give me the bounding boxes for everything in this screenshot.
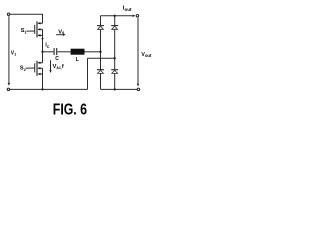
wire bottom rail input side [10, 88, 88, 90]
voltage arrow Vout [137, 18, 139, 84]
svg-text:Iout: Iout [123, 6, 132, 12]
wire top rail left [10, 14, 43, 23]
input terminal bottom-left [7, 88, 9, 90]
svg-text:S1: S1 [21, 28, 28, 34]
wire inductor to rectifier [85, 51, 101, 53]
wire AC return to bridge [88, 57, 115, 59]
capacitor C [53, 48, 55, 55]
wire bottom rail output side [101, 88, 138, 90]
wire to capacitor [43, 51, 54, 53]
node switch-capacitor junction [41, 51, 43, 53]
svg-text:Vout: Vout [141, 52, 152, 58]
node top rail leg2 [114, 15, 116, 17]
current arrow IC [41, 38, 43, 41]
wire switch node [42, 35, 44, 51]
output terminal bottom [137, 88, 139, 90]
diode D3 [111, 26, 118, 30]
svg-text:S2: S2 [20, 66, 27, 72]
svg-text:C: C [55, 56, 59, 62]
svg-text:Vs: Vs [58, 29, 65, 35]
voltage arrow VACf [50, 60, 52, 70]
wire top rail output with Iout arrow [101, 15, 133, 17]
node S2 source-bottom rail [41, 88, 43, 90]
input terminal top-left [7, 13, 9, 15]
diode D4 [111, 70, 118, 74]
wire capacitor to inductor [57, 51, 70, 53]
transistor S1 [26, 21, 42, 37]
wire input return riser [87, 58, 89, 89]
node AC2 [114, 57, 116, 59]
voltage arrow V1 [8, 16, 10, 83]
node AC1 [99, 51, 101, 53]
wire switch node to S2 drain [42, 52, 44, 63]
wire rectifier leg 1 [100, 16, 102, 90]
svg-text:L: L [76, 57, 79, 63]
svg-text:FIG. 6: FIG. 6 [53, 102, 87, 119]
diode D2 [97, 70, 104, 74]
node bottom rail leg2 [114, 88, 116, 90]
wire S2 source to bottom rail [42, 74, 44, 89]
voltage arrow Vs [56, 34, 63, 36]
diode D1 [97, 26, 104, 30]
wire rectifier leg 2 [114, 16, 116, 90]
inductor L [71, 49, 85, 55]
transistor S2 [26, 61, 43, 76]
output terminal top [136, 15, 138, 17]
